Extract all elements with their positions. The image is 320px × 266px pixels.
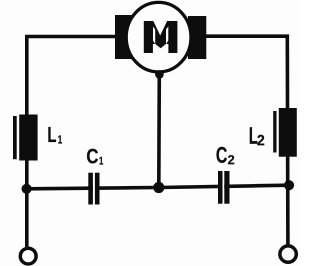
node right junction <box>284 180 294 190</box>
capacitor C1 gap <box>93 172 95 206</box>
wire center vertical from motor to bus <box>157 73 161 188</box>
label L1 subscript 1 <box>58 135 62 143</box>
capacitor C1 <box>88 173 99 205</box>
motor U1 body <box>126 2 191 72</box>
terminal bottom-right <box>280 246 296 262</box>
motor U1 right brush <box>188 16 206 59</box>
motor U1 bottom terminal dot <box>155 70 164 79</box>
wire top-right from motor to right corner and down right side <box>200 36 288 244</box>
label C1 letter C <box>87 149 98 164</box>
label L2 letter L <box>250 127 258 144</box>
wire top-left from motor to left corner and down left side <box>27 37 120 248</box>
node left junction <box>22 184 32 194</box>
label C2 letter C <box>217 147 227 163</box>
node center junction <box>153 182 164 193</box>
terminal bottom-left <box>20 248 36 264</box>
label L2 subscript 2 <box>257 135 264 146</box>
wire horizontal bus <box>27 185 289 189</box>
motor U1 left brush <box>115 15 133 59</box>
label C1 subscript 1 <box>100 157 104 165</box>
inductor L2 <box>273 108 297 157</box>
capacitor C2 <box>218 171 230 204</box>
motor U1 letter M <box>144 21 178 53</box>
inductor L1 <box>13 115 38 161</box>
capacitor C2 gap <box>222 170 224 206</box>
label L1 letter L <box>48 127 56 142</box>
label C2 subscript 2 <box>228 155 234 164</box>
